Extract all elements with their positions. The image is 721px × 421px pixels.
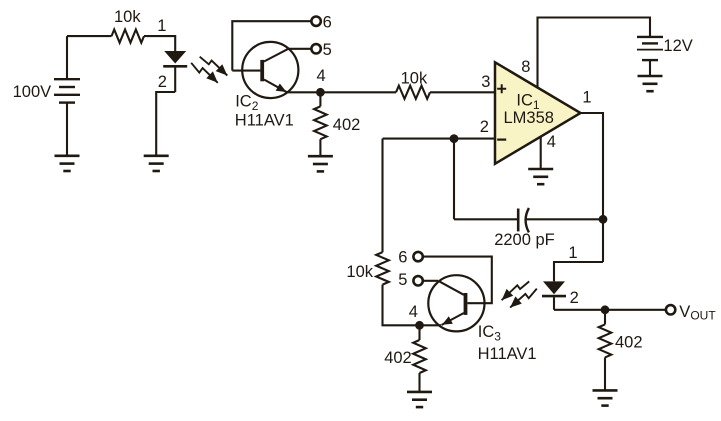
resistor 402 (output) [604, 310, 606, 325]
node capacitor-output junction [599, 215, 608, 224]
resistor R1 10k [112, 29, 145, 42]
battery B1 100V [66, 36, 68, 79]
wire IC3 pin6 route [423, 257, 492, 304]
svg-text:2: 2 [480, 118, 489, 136]
wire IC2 pin4 to R2 [287, 91, 396, 93]
node pin2 junction [450, 134, 459, 143]
svg-text:10k: 10k [401, 69, 428, 87]
optocoupler IC2 phototransistor circle [242, 42, 298, 98]
svg-text:402: 402 [333, 116, 361, 134]
terminal Vout [666, 305, 675, 314]
IC2 emitter line [264, 80, 287, 93]
svg-text:12V: 12V [663, 37, 692, 55]
resistor 402 (IC2 pin4) [319, 92, 321, 106]
op-amp plus marker [497, 84, 506, 93]
wire R1 to LED D1 [144, 36, 175, 52]
node pin4 IC2 junction [316, 88, 325, 97]
capacitor C1 curved plate [526, 208, 529, 232]
wire IC2 pin6 route [232, 21, 311, 70]
IC3 collector line [438, 281, 464, 295]
terminal pin 5 (IC3) [413, 276, 422, 285]
wire R2 to op-amp pin3 [430, 91, 495, 93]
resistor R4 10k (feedback) [376, 252, 389, 284]
wire LED D2 to Vout [554, 309, 666, 311]
IC2 collector line [264, 49, 311, 62]
wire to capacitor C1 [454, 218, 517, 220]
svg-text:1: 1 [157, 17, 166, 35]
svg-text:1: 1 [568, 244, 577, 262]
light arrows (LED D1 to IC2) [200, 57, 228, 76]
svg-text:H11AV1: H11AV1 [235, 112, 294, 130]
ground (402 IC3) [407, 391, 432, 394]
svg-text:402: 402 [615, 334, 643, 352]
svg-text:LM358: LM358 [504, 109, 554, 127]
svg-text:2200 pF: 2200 pF [494, 231, 555, 249]
optocoupler IC3 phototransistor circle [428, 275, 484, 331]
terminal pin 6 (IC2) [311, 17, 320, 26]
IC2 base bar [260, 60, 264, 81]
svg-text:402: 402 [384, 349, 412, 367]
svg-text:4: 4 [409, 303, 418, 321]
capacitor C1 plate [517, 209, 520, 232]
IC3 base bar [464, 293, 468, 315]
wire node to capacitor [453, 139, 455, 220]
svg-text:2: 2 [158, 73, 167, 91]
ground (402 output) [593, 389, 618, 392]
wire feedback down [381, 139, 383, 253]
svg-text:2: 2 [570, 289, 579, 307]
svg-text:H11AV1: H11AV1 [478, 345, 537, 363]
wire capacitor to output node [527, 218, 604, 220]
wire pin2 to feedback node [383, 138, 496, 140]
wire pin4 to ground [540, 136, 542, 168]
svg-text:1: 1 [582, 89, 591, 107]
battery B2 12V [637, 36, 663, 38]
svg-text:100V: 100V [13, 83, 52, 101]
node pin4 IC3 junction [415, 321, 424, 330]
ground (IC1 pin4) [528, 168, 553, 171]
ground (battery B2) [638, 75, 663, 78]
resistor 402 (IC3 pin4) [418, 325, 420, 340]
LED D2 (IC3 input diode) [543, 281, 565, 294]
IC2 base wire [232, 70, 260, 72]
svg-text:6: 6 [398, 249, 407, 267]
ground (LED D1) [144, 155, 169, 158]
wire IC3 pin5 to collector [423, 280, 438, 282]
LED D1 (IC2 input diode) [164, 51, 186, 64]
svg-text:5: 5 [398, 271, 407, 289]
ground (402 IC2) [308, 155, 333, 158]
op-amp U1 LM358 triangle [495, 62, 581, 164]
light arrows (LED D2 to IC3) [502, 281, 530, 300]
svg-text:5: 5 [323, 41, 332, 59]
terminal pin 6 (IC3) [413, 252, 422, 261]
IC3 emitter line [442, 313, 464, 325]
wire battery to R1 [67, 35, 112, 37]
svg-text:6: 6 [323, 13, 332, 31]
node output junction [601, 305, 610, 314]
svg-text:4: 4 [547, 133, 556, 151]
svg-text:4: 4 [317, 67, 326, 85]
wire pin8 to 12V rail [538, 18, 651, 88]
svg-text:8: 8 [521, 58, 530, 76]
wire pin1 output [581, 113, 604, 262]
svg-text:3: 3 [481, 73, 490, 91]
wire output to LED D2 [554, 262, 603, 281]
terminal pin 5 (IC2) [311, 44, 320, 53]
svg-text:10k: 10k [114, 8, 141, 26]
wire LED D1 to ground [156, 92, 175, 155]
op-amp minus marker [497, 139, 506, 141]
svg-text:10k: 10k [346, 263, 373, 281]
resistor R2 10k (to pin3) [396, 86, 430, 99]
ground (battery B1) [55, 155, 80, 158]
wire R4 to IC3 pin4 [383, 285, 442, 326]
